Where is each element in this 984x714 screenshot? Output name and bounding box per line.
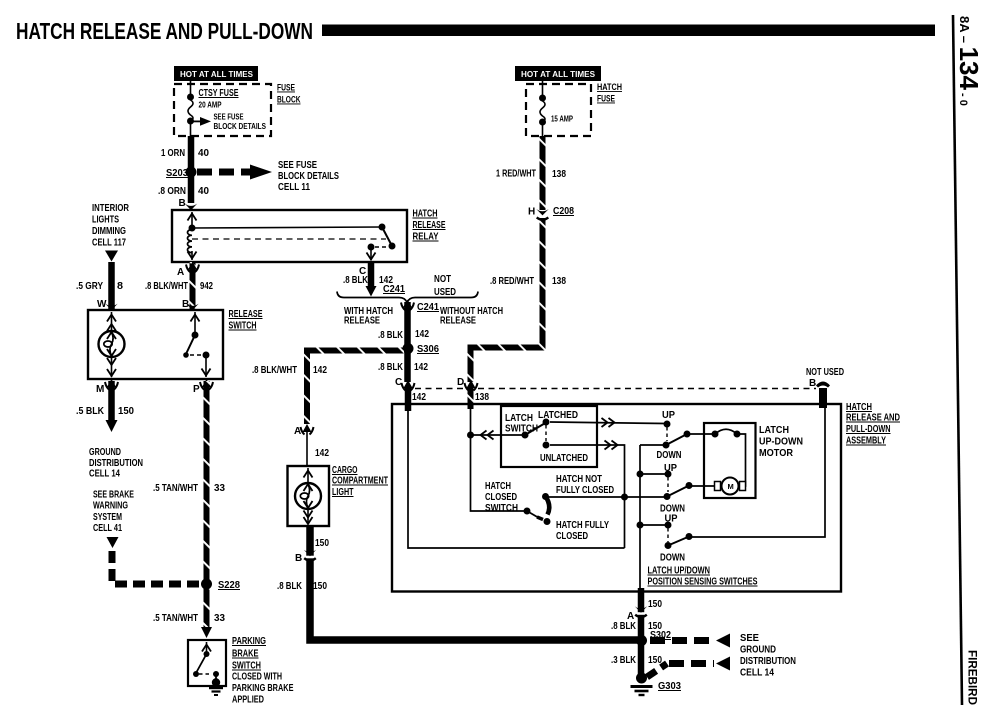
svg-text:CARGO: CARGO <box>332 465 358 476</box>
svg-text:HATCH: HATCH <box>597 82 622 92</box>
see fuse block details arrow (inside fuse block) <box>191 120 201 122</box>
svg-text:NOT USED: NOT USED <box>806 367 844 378</box>
svg-text:.5 BLK: .5 BLK <box>76 406 105 417</box>
svg-text:HATCH FULLY: HATCH FULLY <box>556 520 609 531</box>
svg-text:HATCH RELEASE AND PULL-DOWN: HATCH RELEASE AND PULL-DOWN <box>16 18 313 44</box>
svg-text:B: B <box>182 299 189 310</box>
wire D internal run <box>470 408 472 435</box>
hatch release and pull-down assembly box <box>392 404 841 592</box>
svg-text:142: 142 <box>415 329 429 340</box>
svg-text:CELL 14: CELL 14 <box>740 668 774 679</box>
svg-text:CLOSED: CLOSED <box>485 492 517 503</box>
svg-text:SWITCH: SWITCH <box>505 424 538 435</box>
svg-text:CLOSED WITH: CLOSED WITH <box>232 672 282 683</box>
svg-text:BLOCK DETAILS: BLOCK DETAILS <box>278 171 339 182</box>
svg-text:C241: C241 <box>383 284 405 295</box>
wire .5 BLK 150 to ground distribution <box>108 381 115 421</box>
svg-text:CTSY FUSE: CTSY FUSE <box>199 88 239 99</box>
svg-text:USED: USED <box>434 287 456 298</box>
svg-text:LATCH UP/DOWN: LATCH UP/DOWN <box>648 566 711 577</box>
wire D to latch switch <box>471 434 526 436</box>
svg-text:SWITCH: SWITCH <box>485 503 518 514</box>
svg-text:SEE FUSE: SEE FUSE <box>278 160 317 171</box>
svg-text:8: 8 <box>117 281 123 292</box>
svg-text:CELL 117: CELL 117 <box>92 238 126 249</box>
unlatched output line <box>550 445 625 548</box>
svg-text:.8 BLK/WHT: .8 BLK/WHT <box>145 281 188 292</box>
hatch release relay box <box>172 210 407 262</box>
latch up-down motor box <box>704 423 756 498</box>
svg-text:DOWN: DOWN <box>660 553 685 564</box>
parking brake switch contacts <box>206 642 208 654</box>
svg-text:FUSE: FUSE <box>277 83 295 93</box>
wire 150 ground from assembly <box>638 588 645 674</box>
svg-text:C: C <box>395 377 402 388</box>
latch switch box <box>501 406 597 467</box>
svg-text:SWITCH: SWITCH <box>229 321 257 332</box>
svg-text:.8 RED/WHT: .8 RED/WHT <box>490 276 534 287</box>
svg-text:1 RED/WHT: 1 RED/WHT <box>496 169 536 180</box>
wire D stub into box <box>468 388 474 409</box>
wire .8 RED/WHT 138 to D <box>471 218 543 382</box>
svg-text:C208: C208 <box>553 206 574 217</box>
svg-text:LIGHTS: LIGHTS <box>92 215 119 226</box>
wire 1 ORN 40 <box>188 136 195 203</box>
svg-text:138: 138 <box>552 169 566 180</box>
node junction x624 <box>621 494 628 501</box>
svg-text:H: H <box>528 207 535 218</box>
svg-text:CELL 41: CELL 41 <box>93 523 122 534</box>
HOT AT ALL TIMES box (left) <box>174 66 258 81</box>
svg-text:HATCH: HATCH <box>846 402 872 413</box>
svg-text:DOWN: DOWN <box>657 450 682 461</box>
svg-text:SEE BRAKE: SEE BRAKE <box>93 490 134 501</box>
svg-text:FULLY CLOSED: FULLY CLOSED <box>556 485 614 496</box>
svg-text:942: 942 <box>200 281 213 292</box>
title bar <box>322 25 935 37</box>
svg-text:UP-DOWN: UP-DOWN <box>759 437 803 448</box>
svg-text:G303: G303 <box>658 681 681 692</box>
svg-text:S306: S306 <box>417 344 439 355</box>
svg-text:RELEASE: RELEASE <box>344 316 380 327</box>
wire .8 BLK 142 (C241 to S306 to C) <box>404 302 411 382</box>
svg-text:B: B <box>179 198 186 209</box>
svg-text:142: 142 <box>412 392 426 403</box>
svg-text:MOTOR: MOTOR <box>759 448 794 459</box>
svg-text:150: 150 <box>118 406 134 417</box>
relay fixed contact line <box>192 227 382 228</box>
svg-text:S203: S203 <box>166 168 188 179</box>
hatch fuse dashed box <box>526 84 591 136</box>
svg-text:33: 33 <box>214 613 225 624</box>
splice S228 <box>201 579 212 590</box>
release switch box <box>88 310 223 379</box>
svg-text:UP: UP <box>662 410 675 421</box>
svg-text:.8 BLK/WHT: .8 BLK/WHT <box>252 365 297 376</box>
svg-text:PARKING: PARKING <box>232 636 266 647</box>
svg-text:138: 138 <box>475 392 489 403</box>
wire .8 BLK 150 (cargo light to S302) <box>310 527 640 640</box>
svg-text:150: 150 <box>648 599 662 610</box>
svg-text:WARNING: WARNING <box>93 501 128 512</box>
relay output contact <box>368 244 375 251</box>
svg-text:.8 BLK: .8 BLK <box>343 275 369 286</box>
svg-text:A: A <box>177 267 184 278</box>
svg-text:HATCH: HATCH <box>413 209 438 220</box>
svg-text:APPLIED: APPLIED <box>232 695 264 706</box>
wire .8 BLK/WHT 942 (relay A to switch B) <box>190 262 196 309</box>
see ground distribution arrow 1 <box>650 637 714 644</box>
svg-text:40: 40 <box>198 148 209 159</box>
svg-text:SEE: SEE <box>740 633 759 644</box>
svg-text:B: B <box>809 378 816 389</box>
sidebar rule <box>953 15 962 705</box>
cargo lamp <box>307 468 309 483</box>
fuse CTSY 20A element <box>190 81 192 96</box>
svg-text:RELAY: RELAY <box>413 232 439 243</box>
svg-text:DISTRIBUTION: DISTRIBUTION <box>89 458 143 469</box>
ground G303 <box>636 673 647 684</box>
wire .8 BLK/WHT 142 (S306 to cargo light) <box>307 351 404 425</box>
svg-text:M: M <box>96 384 104 395</box>
parking brake switch box <box>188 640 226 686</box>
motor M <box>715 482 721 491</box>
svg-text:33: 33 <box>214 483 225 494</box>
svg-text:INTERIOR: INTERIOR <box>92 203 130 214</box>
ground bus vertical <box>639 445 641 589</box>
svg-text:142: 142 <box>313 365 327 376</box>
svg-text:.8 BLK: .8 BLK <box>378 330 404 341</box>
connector C241 (lower) <box>401 300 414 311</box>
svg-text:15 AMP: 15 AMP <box>551 114 573 124</box>
svg-text:HATCH: HATCH <box>485 481 511 492</box>
svg-text:.5 GRY: .5 GRY <box>76 281 103 292</box>
svg-text:SWITCH: SWITCH <box>232 661 261 672</box>
svg-text:RELEASE: RELEASE <box>229 309 263 320</box>
svg-text:CELL 14: CELL 14 <box>89 469 120 480</box>
wire 1 RED/WHT 138 <box>540 136 546 210</box>
splice S306 <box>403 343 414 354</box>
svg-text:LIGHT: LIGHT <box>332 487 354 498</box>
svg-text:DIMMING: DIMMING <box>92 226 126 237</box>
svg-text:B: B <box>295 553 302 564</box>
svg-text:S228: S228 <box>218 580 240 591</box>
svg-text:PULL-DOWN: PULL-DOWN <box>846 424 891 435</box>
svg-text:W: W <box>97 299 107 310</box>
svg-text:150: 150 <box>315 538 329 549</box>
splice S203 <box>186 167 197 178</box>
svg-text:NOT: NOT <box>434 274 451 285</box>
svg-text:BLOCK DETAILS: BLOCK DETAILS <box>214 121 267 131</box>
svg-text:1 ORN: 1 ORN <box>161 148 185 159</box>
svg-text:COMPARTMENT: COMPARTMENT <box>332 476 388 487</box>
svg-text:HOT AT ALL TIMES: HOT AT ALL TIMES <box>180 70 254 79</box>
svg-text:8A – 134 - 0: 8A – 134 - 0 <box>954 16 984 106</box>
see ground distribution arrow 2 <box>647 664 667 678</box>
dashed not-used line C-D-B <box>415 388 464 390</box>
latched output line <box>550 422 665 424</box>
fuse HATCH 15A element <box>542 81 544 96</box>
node D junction <box>467 432 474 439</box>
svg-text:DISTRIBUTION: DISTRIBUTION <box>740 656 796 667</box>
wire .5 TAN/WHT 33 (P to S228 to parking brake switch) <box>204 381 210 629</box>
svg-text:142: 142 <box>414 362 428 373</box>
svg-text:RELEASE AND: RELEASE AND <box>846 413 900 424</box>
svg-text:.3 BLK: .3 BLK <box>611 655 637 666</box>
svg-text:GROUND: GROUND <box>740 645 776 656</box>
svg-text:.5 TAN/WHT: .5 TAN/WHT <box>153 483 198 494</box>
svg-text:RELEASE: RELEASE <box>440 316 476 327</box>
svg-text:HOT AT ALL TIMES: HOT AT ALL TIMES <box>521 70 596 79</box>
relay switch blade <box>379 224 386 231</box>
svg-text:LATCH: LATCH <box>759 425 789 436</box>
release switch contacts <box>194 312 196 335</box>
svg-text:FIREBIRD: FIREBIRD <box>966 650 980 705</box>
wire C internal run <box>408 410 625 548</box>
svg-text:P: P <box>193 384 200 395</box>
fuse block dashed box <box>174 84 271 136</box>
see fuse block details cell 11 arrow <box>197 169 252 176</box>
wire .8 BLK 142 (relay C to C241) <box>368 262 375 287</box>
svg-text:HATCH NOT: HATCH NOT <box>556 474 602 485</box>
svg-text:UNLATCHED: UNLATCHED <box>540 453 588 464</box>
svg-text:LATCH: LATCH <box>505 413 533 424</box>
release switch lamp <box>111 312 113 331</box>
svg-text:RELEASE: RELEASE <box>413 220 446 231</box>
connector C241 brace <box>337 292 478 303</box>
svg-text:BLOCK: BLOCK <box>277 95 301 105</box>
svg-text:SYSTEM: SYSTEM <box>93 512 122 523</box>
svg-text:M: M <box>728 482 734 491</box>
svg-text:POSITION SENSING SWITCHES: POSITION SENSING SWITCHES <box>648 577 758 588</box>
splice S302 <box>636 635 647 646</box>
svg-text:FUSE: FUSE <box>597 94 615 104</box>
wire .5 GRY 8 <box>108 262 115 309</box>
svg-text:CELL 11: CELL 11 <box>278 182 310 193</box>
svg-text:142: 142 <box>315 448 329 459</box>
svg-text:150: 150 <box>313 581 327 592</box>
wire switch 3 to B <box>689 408 825 537</box>
svg-text:PARKING BRAKE: PARKING BRAKE <box>232 683 294 694</box>
svg-text:.5 TAN/WHT: .5 TAN/WHT <box>153 613 198 624</box>
svg-text:20 AMP: 20 AMP <box>199 100 222 110</box>
relay armature dashed link <box>192 238 386 240</box>
svg-text:D: D <box>457 377 464 388</box>
svg-text:40: 40 <box>198 186 209 197</box>
wire C stub into box <box>405 388 412 411</box>
svg-text:SEE FUSE: SEE FUSE <box>214 112 244 122</box>
svg-text:ASSEMBLY: ASSEMBLY <box>846 436 886 447</box>
svg-text:BRAKE: BRAKE <box>232 649 259 660</box>
relay coil <box>191 212 193 229</box>
svg-text:.8 BLK: .8 BLK <box>611 621 637 632</box>
parking brake switch ground <box>215 674 217 680</box>
svg-text:GROUND: GROUND <box>89 447 121 458</box>
svg-text:.8 BLK: .8 BLK <box>378 362 404 373</box>
svg-text:.8 ORN: .8 ORN <box>158 186 186 197</box>
svg-text:138: 138 <box>552 276 566 287</box>
svg-text:.8 BLK: .8 BLK <box>277 581 303 592</box>
cargo compartment light box <box>306 432 308 466</box>
svg-text:CLOSED: CLOSED <box>556 531 588 542</box>
dashed wire from brake warning to S228 <box>112 551 203 584</box>
HOT AT ALL TIMES box (right) <box>515 66 601 81</box>
svg-text:C241: C241 <box>417 302 439 313</box>
